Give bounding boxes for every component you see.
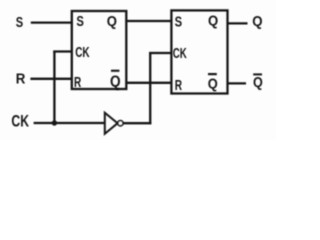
svg-text:Q: Q <box>252 14 262 30</box>
svg-text:CK: CK <box>75 44 89 61</box>
svg-text:R: R <box>16 72 26 88</box>
svg-text:CK: CK <box>173 45 187 62</box>
svg-text:S: S <box>16 15 23 31</box>
svg-text:S: S <box>175 13 183 30</box>
svg-text:Q: Q <box>208 14 218 30</box>
svg-text:Q: Q <box>208 76 218 93</box>
svg-text:Q: Q <box>107 14 117 30</box>
svg-text:R: R <box>175 77 182 94</box>
svg-text:Q: Q <box>110 73 121 90</box>
svg-text:CK: CK <box>11 112 29 130</box>
svg-text:R: R <box>74 74 81 91</box>
svg-text:S: S <box>76 13 84 30</box>
svg-text:Q: Q <box>253 75 263 91</box>
